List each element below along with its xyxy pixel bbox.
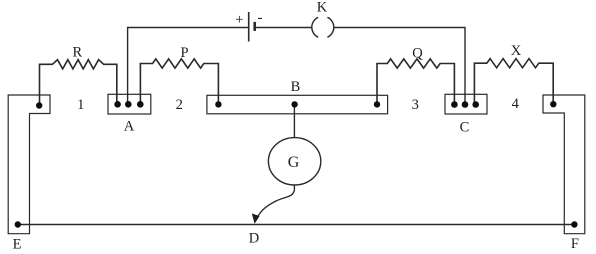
svg-text:P: P [180, 45, 188, 61]
node B terminal [291, 101, 297, 107]
svg-text:3: 3 [412, 97, 419, 113]
svg-text:X: X [511, 43, 522, 59]
node: block C right terminal [472, 101, 479, 108]
jockey arrowhead at D [252, 214, 260, 224]
wire: B to galvanometer [293, 104, 295, 137]
svg-text:F: F [571, 236, 579, 252]
node: block A left terminal [114, 101, 121, 108]
svg-text:C: C [460, 120, 470, 136]
svg-text:2: 2 [176, 97, 183, 113]
node: right strip top terminal [550, 101, 556, 107]
bottom wire E to F [18, 224, 575, 226]
svg-text:-: - [258, 10, 263, 26]
node: bridge strip right terminal [374, 101, 380, 107]
wire: top wire from A riser corner to battery positive plate [128, 28, 248, 105]
left copper strip (E terminal strip) [8, 95, 50, 234]
svg-text:K: K [317, 0, 328, 16]
wire: key K to C middle riser [334, 28, 465, 105]
svg-text:Q: Q [412, 46, 423, 62]
wire: galvanometer to jockey D (curved lead) [257, 185, 295, 219]
node: block A middle terminal [125, 101, 132, 108]
key K (plug key open circle) [312, 17, 318, 37]
svg-text:1: 1 [77, 97, 84, 113]
node: block C left terminal [451, 101, 458, 108]
svg-text:G: G [288, 154, 300, 171]
battery B1 positive plate [248, 12, 250, 42]
resistor X [474, 59, 553, 104]
svg-text:4: 4 [512, 96, 520, 112]
resistor R [40, 60, 117, 104]
svg-text:B: B [291, 79, 301, 95]
node E terminal [15, 221, 21, 227]
node F terminal [571, 221, 577, 227]
node: left strip top terminal [36, 102, 42, 108]
svg-text:A: A [124, 118, 135, 134]
wire: battery negative to key K [256, 27, 312, 29]
resistor Q [377, 59, 454, 104]
right copper strip (F terminal strip) [543, 95, 585, 234]
node: bridge strip left terminal [215, 101, 221, 107]
node: block C middle terminal [462, 101, 469, 108]
resistor P [140, 59, 218, 104]
bridge wire strip (B strip) [207, 95, 388, 114]
battery B1 negative plate [253, 22, 256, 31]
terminal block A [108, 94, 151, 114]
svg-text:E: E [13, 237, 22, 253]
terminal block C [445, 94, 487, 114]
node: block A right terminal [137, 101, 144, 108]
svg-text:R: R [72, 45, 82, 61]
galvanometer G [268, 138, 320, 185]
svg-text:+: + [235, 12, 243, 28]
svg-text:D: D [249, 231, 259, 247]
